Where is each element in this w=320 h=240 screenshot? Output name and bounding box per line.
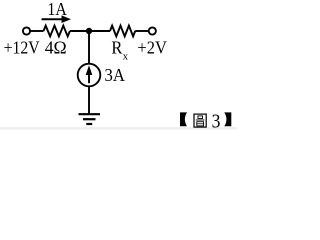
- svg-text:3: 3: [212, 111, 221, 132]
- wire resistor Rx to terminal +2V: [135, 30, 148, 32]
- svg-text:+2V: +2V: [137, 38, 167, 58]
- svg-text:+12V: +12V: [4, 38, 40, 58]
- ground symbol: [79, 114, 101, 124]
- resistor 4ohm zigzag: [44, 26, 70, 37]
- caption character "tu" (figure): [194, 114, 206, 127]
- resistor Rx zigzag: [110, 26, 135, 37]
- node junction dot: [86, 28, 92, 34]
- svg-text:4Ω: 4Ω: [45, 38, 67, 58]
- wire terminal to resistor 4ohm: [30, 30, 43, 32]
- wire current source to ground: [88, 86, 90, 114]
- current source arrow (up): [86, 65, 93, 83]
- current source I1 circle: [78, 64, 101, 87]
- svg-text:R: R: [111, 37, 122, 57]
- terminal +2V (open circle): [149, 27, 156, 34]
- wire node down to current source: [88, 31, 90, 64]
- svg-text:1A: 1A: [47, 0, 66, 19]
- caption bracket right: [224, 112, 231, 126]
- current arrow 1A: [42, 15, 72, 23]
- wire resistor to node: [70, 30, 110, 32]
- page rule (faint divider line): [0, 127, 237, 129]
- caption bracket left: [180, 112, 187, 126]
- svg-text:x: x: [123, 51, 129, 62]
- terminal +12V (open circle): [23, 27, 30, 34]
- svg-text:3A: 3A: [105, 65, 125, 85]
